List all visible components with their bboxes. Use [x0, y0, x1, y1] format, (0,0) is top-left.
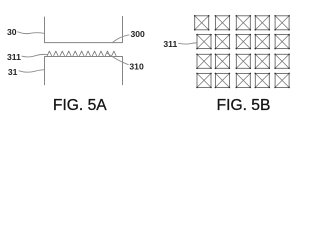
- protrusion cell 311 (row 2, col 1): [197, 35, 211, 49]
- FIG. 5B: [163, 16, 289, 88]
- svg-text:310: 310: [129, 62, 144, 72]
- leader line to 311 (FIG. 5A): [22, 54, 47, 57]
- cover plate 30 (U-shaped cross-section): [45, 16, 123, 42]
- svg-text:FIG. 5A: FIG. 5A: [53, 97, 107, 114]
- svg-text:FIG. 5B: FIG. 5B: [217, 97, 271, 114]
- FIG. 5A: [7, 16, 145, 84]
- protrusion cell 311 (row 1, col 2): [215, 16, 229, 30]
- protrusion cell 311 (row 2, col 2): [215, 35, 229, 49]
- protrusion cell 311 (row 3, col 5): [275, 54, 289, 68]
- protrusion cell 311 (row 3, col 3): [236, 54, 250, 68]
- protrusion cell 311 (row 1, col 3): [236, 16, 250, 30]
- protrusion cell 311 (row 3, col 2): [215, 54, 229, 68]
- leader line to 30: [18, 32, 45, 34]
- protrusion cell 311 (row 2, col 5): [275, 35, 289, 49]
- svg-text:311: 311: [163, 39, 177, 49]
- protrusion cell 311 (row 1, col 5): [275, 16, 289, 30]
- protrusion cell 311 (row 3, col 4): [255, 54, 269, 68]
- svg-text:300: 300: [131, 29, 146, 39]
- protrusion cell 311 (row 4, col 1): [197, 73, 211, 87]
- svg-text:311: 311: [7, 52, 21, 62]
- protrusion cell 311 (row 4, col 5): [275, 73, 289, 87]
- protrusion cell 311 (row 1, col 1): [195, 16, 209, 30]
- leader line to 310: [107, 53, 128, 64]
- protrusion cell 311 (row 2, col 3): [236, 35, 250, 49]
- protrusion cell 311 (row 4, col 4): [255, 73, 269, 87]
- svg-text:30: 30: [7, 27, 17, 37]
- protrusion cell 311 (row 1, col 4): [255, 16, 269, 30]
- leader line to 311 (FIG. 5B): [178, 43, 196, 44]
- leader line to 31: [19, 70, 45, 72]
- protrusion cell 311 (row 2, col 4): [255, 35, 269, 49]
- protrusion cell 311 (row 3, col 1): [197, 54, 211, 68]
- leader line to 300: [112, 35, 129, 43]
- protrusion cell 311 (row 4, col 3): [236, 73, 250, 87]
- substrate 31 (baseline and side walls): [45, 57, 123, 85]
- svg-text:31: 31: [8, 67, 18, 77]
- protrusion cell 311 (row 4, col 2): [215, 73, 229, 87]
- sawtooth protrusions 311: [47, 51, 116, 56]
